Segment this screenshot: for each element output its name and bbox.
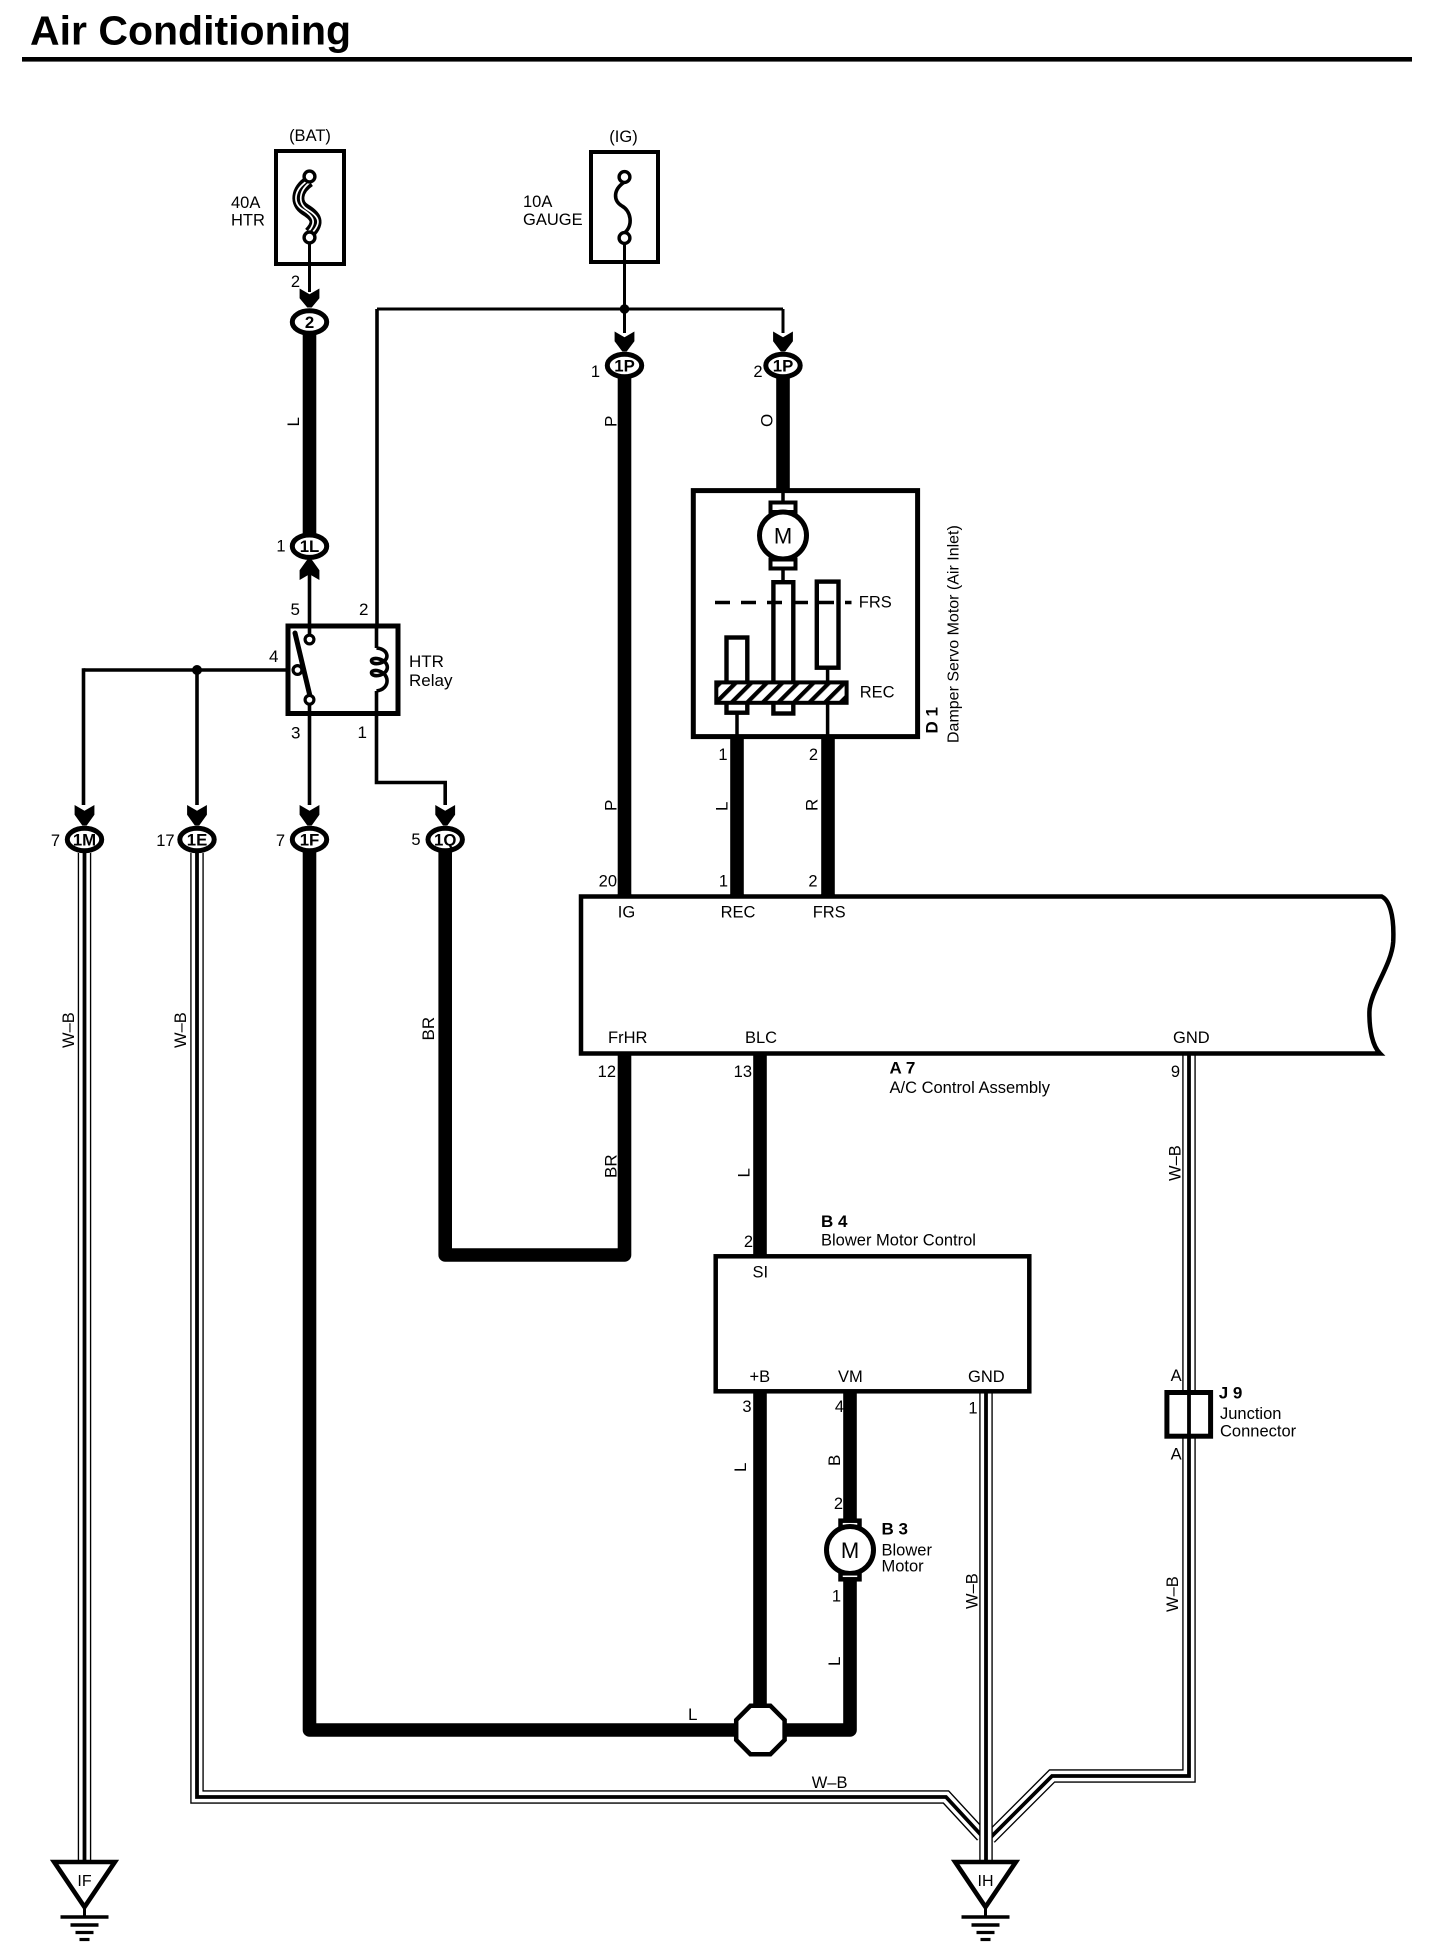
svg-text:L: L <box>731 1463 750 1472</box>
svg-text:13: 13 <box>734 1063 752 1081</box>
svg-text:W–B: W–B <box>60 1012 78 1048</box>
svg-text:W–B: W–B <box>812 1774 848 1792</box>
svg-text:3: 3 <box>742 1398 751 1416</box>
svg-text:7: 7 <box>276 832 285 850</box>
svg-text:REC: REC <box>860 684 895 702</box>
svg-text:Air Conditioning: Air Conditioning <box>30 8 351 54</box>
svg-text:17: 17 <box>156 832 174 850</box>
svg-text:IH: IH <box>978 1873 994 1890</box>
svg-text:J 9: J 9 <box>1219 1384 1243 1403</box>
svg-text:B 4: B 4 <box>821 1212 848 1231</box>
svg-text:1E: 1E <box>187 831 208 850</box>
svg-text:Junction: Junction <box>1220 1405 1281 1423</box>
svg-text:20: 20 <box>599 873 617 891</box>
svg-text:L: L <box>284 417 303 426</box>
svg-text:4: 4 <box>269 647 278 666</box>
svg-text:A: A <box>1171 1367 1182 1385</box>
svg-text:BR: BR <box>419 1017 438 1041</box>
svg-text:P: P <box>602 800 621 811</box>
svg-text:W–B: W–B <box>172 1012 190 1048</box>
svg-text:2: 2 <box>359 600 368 619</box>
svg-text:HTR: HTR <box>231 212 265 230</box>
svg-text:1P: 1P <box>773 357 794 376</box>
svg-text:10A: 10A <box>523 193 552 211</box>
svg-text:BLC: BLC <box>745 1029 777 1047</box>
svg-text:M: M <box>774 524 792 549</box>
svg-text:A: A <box>1171 1446 1182 1464</box>
svg-text:(BAT): (BAT) <box>289 127 331 145</box>
svg-text:4: 4 <box>835 1398 844 1416</box>
svg-text:9: 9 <box>1171 1063 1180 1081</box>
svg-text:1: 1 <box>358 723 367 742</box>
svg-text:REC: REC <box>721 904 756 922</box>
svg-text:FRS: FRS <box>813 904 846 922</box>
svg-text:2: 2 <box>744 1233 753 1251</box>
svg-text:2: 2 <box>291 273 300 291</box>
svg-text:1: 1 <box>719 873 728 891</box>
svg-text:1: 1 <box>718 746 727 764</box>
svg-text:2: 2 <box>305 313 314 332</box>
svg-text:W–B: W–B <box>1164 1576 1182 1612</box>
svg-text:Damper Servo Motor (Air Inlet): Damper Servo Motor (Air Inlet) <box>946 525 963 743</box>
svg-text:L: L <box>825 1657 844 1666</box>
svg-text:R: R <box>802 799 821 811</box>
svg-text:2: 2 <box>808 873 817 891</box>
svg-text:12: 12 <box>598 1063 616 1081</box>
svg-text:7: 7 <box>51 832 60 850</box>
svg-text:1P: 1P <box>614 357 635 376</box>
svg-text:3: 3 <box>291 724 300 743</box>
svg-text:VM: VM <box>838 1368 863 1386</box>
svg-text:1: 1 <box>832 1588 841 1606</box>
svg-text:1M: 1M <box>73 831 96 850</box>
svg-text:Motor: Motor <box>882 1558 925 1576</box>
svg-text:Relay: Relay <box>409 671 453 690</box>
svg-text:SI: SI <box>753 1264 769 1282</box>
svg-text:Blower Motor Control: Blower Motor Control <box>821 1232 976 1250</box>
svg-text:2: 2 <box>809 746 818 764</box>
svg-text:40A: 40A <box>231 194 260 212</box>
svg-text:M: M <box>841 1538 859 1563</box>
svg-text:+B: +B <box>750 1368 771 1386</box>
svg-text:1: 1 <box>591 363 600 381</box>
svg-text:1L: 1L <box>300 537 320 556</box>
svg-text:FRS: FRS <box>859 594 892 612</box>
svg-text:2: 2 <box>834 1495 843 1513</box>
svg-text:GAUGE: GAUGE <box>523 211 583 229</box>
svg-text:BR: BR <box>602 1154 621 1178</box>
svg-text:GND: GND <box>1173 1029 1210 1047</box>
svg-text:(IG): (IG) <box>609 128 637 146</box>
svg-text:IF: IF <box>77 1873 91 1890</box>
svg-text:FrHR: FrHR <box>608 1029 647 1047</box>
svg-text:1: 1 <box>276 538 285 556</box>
svg-text:L: L <box>735 1168 754 1177</box>
svg-text:A 7: A 7 <box>890 1059 916 1078</box>
svg-text:IG: IG <box>618 904 635 922</box>
svg-text:B: B <box>825 1455 844 1466</box>
svg-text:Connector: Connector <box>1220 1423 1297 1441</box>
svg-text:B 3: B 3 <box>882 1520 908 1539</box>
svg-text:5: 5 <box>411 831 420 849</box>
svg-text:L: L <box>713 802 732 811</box>
svg-text:1F: 1F <box>300 831 320 850</box>
svg-text:5: 5 <box>291 600 300 619</box>
svg-text:2: 2 <box>753 363 762 381</box>
svg-text:1: 1 <box>968 1400 977 1418</box>
svg-text:P: P <box>602 416 621 427</box>
svg-text:W–B: W–B <box>1167 1145 1185 1181</box>
svg-text:O: O <box>757 414 776 427</box>
svg-text:1Q: 1Q <box>434 831 456 850</box>
svg-text:HTR: HTR <box>409 652 444 671</box>
svg-text:A/C Control Assembly: A/C Control Assembly <box>890 1079 1051 1097</box>
svg-text:GND: GND <box>968 1368 1005 1386</box>
svg-text:W–B: W–B <box>964 1573 982 1609</box>
svg-text:D 1: D 1 <box>923 707 942 733</box>
svg-text:L: L <box>688 1705 697 1724</box>
